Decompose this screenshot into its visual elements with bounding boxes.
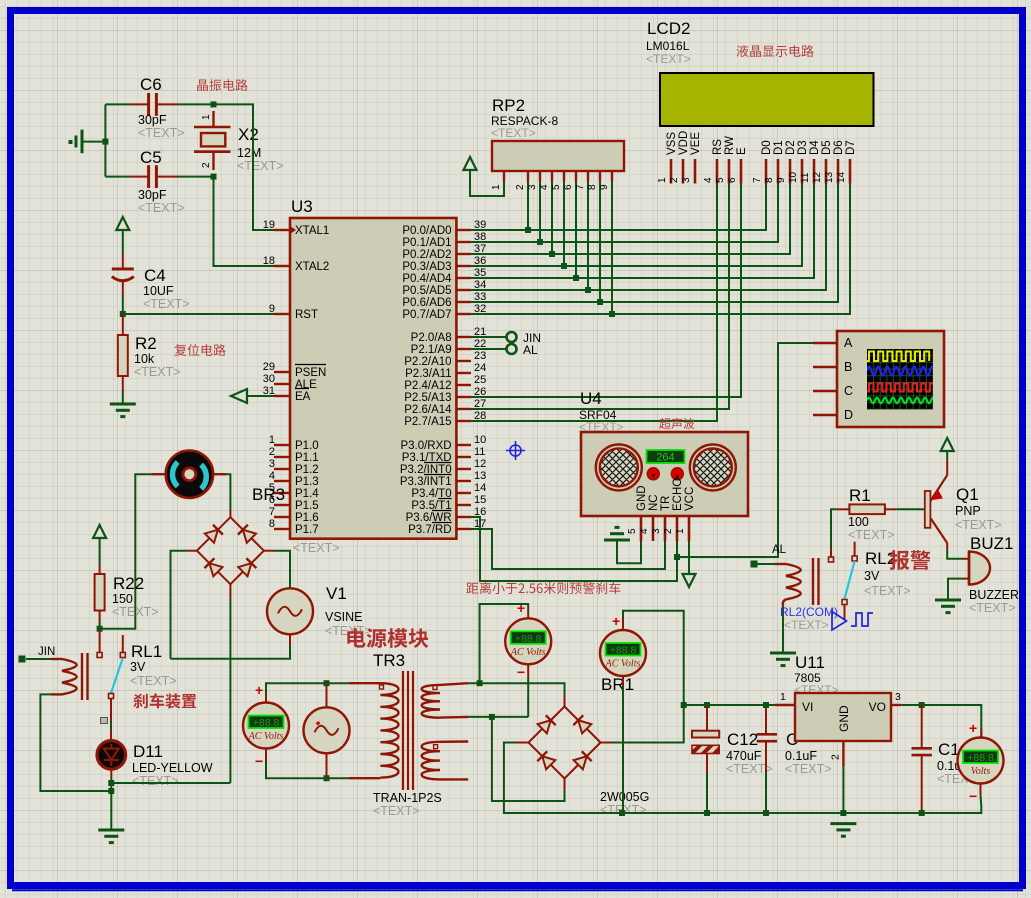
- svg-text:<TEXT>: <TEXT>: [134, 365, 181, 379]
- RP2 pin 3: [527, 171, 540, 190]
- power arrow (RP2): [464, 157, 477, 170]
- resistor R22: [95, 564, 159, 622]
- wire RL1 coil return: [40, 694, 111, 791]
- svg-text:2: 2: [663, 528, 674, 534]
- terminal AL (RL2 coil): [751, 561, 758, 568]
- node: RP2 pin 5 junction: [561, 263, 567, 269]
- svg-text:12: 12: [812, 171, 823, 183]
- svg-text:Q1: Q1: [956, 485, 979, 504]
- LCD2 pin 8 D1: [764, 140, 785, 183]
- svg-text:P0.7/AD7: P0.7/AD7: [402, 309, 451, 321]
- svg-text:VO: VO: [869, 700, 886, 714]
- svg-text:470uF: 470uF: [726, 749, 762, 763]
- wire LCD D6 to U3 P0.6: [471, 184, 838, 303]
- svg-text:3: 3: [527, 184, 538, 190]
- svg-text:ECHO: ECHO: [672, 478, 684, 511]
- label 刹车装置: [133, 693, 196, 708]
- wire LCD E to U3 P2.5: [471, 184, 741, 398]
- svg-text:BR1: BR1: [601, 675, 634, 694]
- svg-text:C4: C4: [144, 266, 166, 285]
- svg-text:5: 5: [627, 528, 638, 534]
- wire RP2 pin 8 to P0.6 bus row: [599, 181, 601, 302]
- node: gnd junction on left vertical: [102, 139, 108, 145]
- svg-text:VSINE: VSINE: [325, 610, 363, 624]
- svg-text:R1: R1: [849, 486, 871, 505]
- svg-text:P2.3/A11: P2.3/A11: [405, 368, 451, 380]
- svg-text:U4: U4: [580, 389, 602, 408]
- RP2 pin 8: [587, 171, 600, 190]
- LCD2 pin 13 D6: [824, 140, 845, 183]
- svg-text:2W005G: 2W005G: [600, 790, 649, 804]
- wire BR3 right vertex to V1 plus: [263, 550, 274, 552]
- LCD2 pin 5 RW: [715, 136, 736, 184]
- wire LCD D1 to U3 P0.1: [471, 184, 778, 243]
- svg-text:AL: AL: [523, 343, 538, 357]
- wire U3 P2.0 to JIN: [471, 336, 507, 338]
- wire buzzer bottom to ground: [964, 578, 970, 580]
- svg-text:AL: AL: [772, 544, 787, 556]
- buzzer BUZ1: [969, 534, 1019, 615]
- U3 pin 24 P2.3/A11: [405, 362, 486, 380]
- LCD2 pin 14 D7: [836, 140, 857, 183]
- svg-text:P2.0/A8: P2.0/A8: [411, 332, 452, 344]
- svg-text:P2.6/A14: P2.6/A14: [404, 404, 452, 416]
- svg-text:3V: 3V: [864, 569, 880, 583]
- svg-text:<TEXT>: <TEXT>: [491, 126, 536, 140]
- voltmeter secondary AC Volts (meter2): [505, 600, 551, 680]
- capacitor C2 0.1uF: [757, 705, 832, 776]
- node: C13 top junction: [919, 702, 925, 708]
- SRF04 left transducer: [596, 444, 642, 490]
- ground (reset circuit): [110, 404, 136, 417]
- RP2 pin 2: [515, 171, 528, 190]
- svg-text:P0.1/AD1: P0.1/AD1: [402, 237, 451, 249]
- resistor R1: [836, 486, 897, 542]
- svg-text:AC Volts: AC Volts: [605, 659, 641, 670]
- wire meter1 top: [265, 693, 267, 702]
- svg-text:E: E: [736, 147, 748, 155]
- svg-text:XTAL1: XTAL1: [295, 225, 329, 237]
- U3 pin 3 P1.2: [269, 458, 319, 476]
- svg-text:4: 4: [703, 177, 714, 183]
- wire motor left down: [100, 474, 152, 629]
- wire to BR1 bottom vertex: [492, 717, 565, 801]
- svg-text:<TEXT>: <TEXT>: [848, 528, 895, 542]
- node: C6 right junction: [211, 101, 217, 107]
- node: C2 top junction: [763, 702, 769, 708]
- svg-text:1: 1: [201, 114, 212, 120]
- node: C2 rail junction: [763, 810, 769, 816]
- svg-text:2: 2: [515, 184, 526, 190]
- wire AC top rail: [468, 683, 564, 694]
- svg-text:<TEXT>: <TEXT>: [293, 541, 340, 555]
- wire RP2 pin 2 to P0.0 bus row: [527, 181, 529, 230]
- node: RP2 pin 3 junction: [537, 239, 543, 245]
- svg-text:D4: D4: [809, 140, 821, 155]
- wire LCD D7 to U3 P0.7: [471, 184, 850, 315]
- node: RST junction: [120, 311, 126, 317]
- svg-text:+: +: [517, 600, 525, 616]
- wire LCD D4 to U3 P0.4: [471, 184, 814, 279]
- ground (D11): [98, 830, 124, 843]
- svg-text:D6: D6: [833, 140, 845, 155]
- node: D11/coil rail junction: [108, 788, 114, 794]
- wire SRF04 VCC to power: [688, 541, 690, 574]
- svg-text:7: 7: [752, 177, 763, 183]
- U3 pin 27 P2.6/A14: [404, 398, 486, 416]
- U3 pin 10 P3.0/RXD: [400, 434, 486, 452]
- LCD2 pin 9 D2: [776, 140, 797, 183]
- svg-text:P1.7: P1.7: [295, 524, 319, 536]
- wire V1 bottom to rail: [289, 634, 291, 645]
- svg-text:<TEXT>: <TEXT>: [784, 618, 829, 632]
- svg-text:C6: C6: [140, 75, 162, 94]
- svg-text:2: 2: [201, 162, 212, 168]
- RP2 pin 5: [551, 171, 564, 190]
- svg-text:1: 1: [657, 177, 668, 183]
- LCD2 pin 7 D0: [752, 140, 773, 183]
- voltmeter DC Volts (meter4): [958, 714, 1004, 806]
- svg-text:D1: D1: [773, 140, 785, 155]
- capacitor C4 (polarized): [112, 254, 190, 311]
- U3 pin 15 P3.5/T1: [411, 494, 486, 512]
- svg-text:GND: GND: [837, 705, 851, 732]
- svg-text:U11: U11: [795, 653, 825, 672]
- svg-text:RW: RW: [724, 136, 736, 155]
- label 报警: [890, 550, 931, 570]
- svg-text:P3.3/INT1: P3.3/INT1: [400, 476, 452, 488]
- svg-text:2: 2: [830, 754, 842, 760]
- label 距离小于2.56米则预警刹车: [467, 582, 621, 594]
- svg-text:AC Volts: AC Volts: [510, 647, 546, 658]
- capacitor C5: [105, 148, 213, 215]
- U3 pin 31 EA: [263, 385, 311, 403]
- wire motor right to BR3: [226, 474, 230, 510]
- svg-text:+88.8: +88.8: [610, 645, 637, 657]
- resistor R2: [118, 314, 181, 392]
- svg-text:10: 10: [474, 434, 486, 446]
- svg-text:▼: ▼: [650, 473, 657, 480]
- svg-text:TR3: TR3: [373, 651, 405, 670]
- svg-text:3: 3: [269, 458, 275, 470]
- svg-text:<TEXT>: <TEXT>: [955, 518, 1002, 532]
- svg-text:D3: D3: [797, 140, 809, 155]
- U3 microcontroller body: [290, 197, 456, 555]
- label 电源模块: [347, 628, 428, 648]
- svg-text:9: 9: [269, 303, 275, 315]
- oscilloscope channel D pin: [813, 408, 853, 422]
- wire RL2 coil to ground: [782, 606, 784, 653]
- bridge rectifier BR1: [529, 675, 650, 817]
- ground (RL2 coil): [770, 653, 796, 666]
- wire LCD D2 to U3 P0.2: [471, 184, 790, 255]
- node: RP2 pin 6 junction: [573, 275, 579, 281]
- LCD2 pin 4 RS: [703, 139, 724, 184]
- label 超声波: [659, 418, 694, 429]
- ground (rotated, crystal circuit): [81, 130, 84, 154]
- wire primary bottom: [327, 777, 349, 779]
- wire U3 P2.1 to AL: [471, 348, 507, 350]
- svg-text:R22: R22: [113, 574, 144, 593]
- svg-text:+: +: [255, 682, 263, 698]
- label 晶振电路: [197, 79, 247, 91]
- svg-text:<TEXT>: <TEXT>: [646, 52, 691, 66]
- svg-text:B: B: [844, 360, 852, 374]
- wire BR1 left vertex to DC minus rail: [516, 742, 529, 744]
- U3 pin 26 P2.5/A13: [404, 386, 486, 404]
- RP2 pin 6: [563, 171, 576, 190]
- svg-text:11: 11: [474, 446, 485, 458]
- wire RP2 pin 4 to P0.2 bus row: [551, 181, 553, 254]
- wire BR3 bottom vertex down to DC rail: [229, 584, 231, 599]
- relay actuator icon: [101, 718, 108, 724]
- svg-text:RS: RS: [712, 139, 724, 155]
- svg-text:11: 11: [800, 172, 811, 183]
- wire RP2 pin 6 to P0.4 bus row: [575, 181, 577, 278]
- ground (buzzer): [935, 600, 961, 613]
- svg-text:D7: D7: [845, 140, 857, 155]
- capacitor C13 0.1uF: [912, 705, 970, 813]
- svg-text:9: 9: [599, 184, 610, 190]
- svg-text:−: −: [517, 664, 525, 680]
- svg-text:+88.8: +88.8: [515, 633, 542, 645]
- svg-text:30pF: 30pF: [138, 188, 167, 202]
- oscilloscope channel C pin: [813, 384, 853, 398]
- svg-text:150: 150: [112, 592, 133, 606]
- svg-text:100: 100: [848, 515, 869, 529]
- svg-text:2: 2: [269, 446, 275, 458]
- svg-text:P3.7/RD: P3.7/RD: [408, 524, 451, 536]
- node: ECHO junction: [674, 554, 680, 560]
- svg-text:4: 4: [639, 528, 650, 534]
- svg-text:V1: V1: [326, 584, 347, 603]
- svg-text:14: 14: [474, 482, 486, 494]
- wire RL1 common to D11: [110, 698, 112, 721]
- wire LCD D5 to U3 P0.5: [471, 184, 826, 291]
- wire RP2 pin 9 to P0.7 bus row: [611, 181, 613, 314]
- LCD2 pin 11 D4: [800, 140, 821, 184]
- node: C13 rail junction: [919, 810, 925, 816]
- label 复位电路: [174, 344, 225, 356]
- svg-text:VSS: VSS: [666, 132, 678, 155]
- svg-text:8: 8: [764, 177, 775, 183]
- SRF04 pin 3 TR: [651, 496, 672, 541]
- svg-text:RST: RST: [295, 309, 318, 321]
- U11 pin 1 VI: [775, 704, 795, 706]
- svg-text:5: 5: [715, 177, 726, 183]
- svg-text:19: 19: [263, 219, 275, 231]
- origin marker: [506, 441, 525, 460]
- U3 pin 17 P3.7/RD: [408, 518, 486, 536]
- svg-text:30: 30: [263, 373, 275, 385]
- U11 7805 regulator: [794, 653, 891, 741]
- U3 pin 11 P3.1/TXD: [402, 446, 486, 464]
- svg-text:RP2: RP2: [492, 96, 525, 115]
- net AL circle: [507, 344, 517, 354]
- wire BR3 left vertex to V1 minus rail: [187, 550, 197, 552]
- svg-text:1: 1: [780, 691, 786, 703]
- LED D11: [97, 741, 213, 788]
- U3 pin 2 P1.1: [269, 446, 319, 464]
- svg-text:15: 15: [474, 494, 486, 506]
- wire DC plus rail to U11 VI: [684, 704, 775, 706]
- oscilloscope channel A pin: [813, 336, 853, 350]
- svg-text:+88.8: +88.8: [253, 717, 280, 729]
- wire RP2 pin 3 to P0.1 bus row: [539, 181, 541, 242]
- U3 XTAL1 pin arrow: [290, 226, 296, 234]
- svg-text:P2.5/A13: P2.5/A13: [404, 392, 451, 404]
- svg-text:264: 264: [656, 452, 674, 464]
- U3 pin 14 P3.4/T0: [411, 482, 486, 500]
- svg-text:<TEXT>: <TEXT>: [864, 584, 911, 598]
- svg-text:LCD2: LCD2: [647, 19, 690, 38]
- source V1 VSINE: [267, 584, 372, 638]
- svg-text:RL2: RL2: [865, 549, 896, 568]
- svg-text:8: 8: [269, 518, 275, 530]
- node: source bottom junction: [324, 775, 330, 781]
- bridge rectifier BR3: [197, 485, 285, 584]
- svg-text:C5: C5: [140, 148, 162, 167]
- svg-text:D5: D5: [821, 140, 833, 155]
- svg-text:D: D: [844, 408, 853, 422]
- svg-text:P0.0/AD0: P0.0/AD0: [402, 225, 451, 237]
- svg-text:<TEXT>: <TEXT>: [143, 297, 190, 311]
- SRF04 range display 264: [647, 450, 685, 464]
- svg-text:R2: R2: [135, 334, 157, 353]
- U11 pin 3 VO: [891, 704, 901, 706]
- svg-text:<TEXT>: <TEXT>: [785, 762, 832, 776]
- svg-text:<TEXT>: <TEXT>: [237, 159, 284, 173]
- node: R22/motor junction: [97, 626, 103, 632]
- svg-text:4: 4: [539, 184, 550, 190]
- svg-text:0.1uF: 0.1uF: [785, 749, 817, 763]
- SRF04 pin 1 VCC: [675, 487, 696, 541]
- svg-text:P1.0: P1.0: [295, 440, 319, 452]
- svg-text:9: 9: [776, 177, 787, 183]
- svg-text:13: 13: [824, 171, 835, 183]
- SRF04 RX indicator: [671, 468, 683, 480]
- svg-text:<TEXT>: <TEXT>: [130, 674, 177, 688]
- svg-text:10UF: 10UF: [143, 284, 174, 298]
- node: U11 GND rail junction: [840, 810, 846, 816]
- svg-text:P1.3: P1.3: [295, 476, 319, 488]
- oscilloscope channel B pin: [813, 360, 852, 374]
- U3 pin 36 P0.3/AD3: [402, 255, 486, 273]
- wire meter1 bottom: [265, 749, 267, 760]
- svg-text:3: 3: [651, 528, 662, 534]
- svg-text:+: +: [612, 613, 620, 629]
- label 液晶显示电路: [737, 45, 814, 57]
- svg-text:P1.4: P1.4: [295, 488, 319, 500]
- svg-text:<TEXT>: <TEXT>: [579, 420, 624, 434]
- SRF04 pin 5 GND: [627, 485, 648, 541]
- svg-text:PSEN: PSEN: [295, 367, 326, 379]
- U3 pin 5 P1.4: [269, 482, 319, 500]
- svg-text:10: 10: [788, 171, 799, 183]
- RP2 pin 9: [599, 171, 612, 190]
- svg-text:P0.2/AD2: P0.2/AD2: [402, 249, 451, 261]
- U3 pin 23 P2.2/A10: [404, 350, 486, 368]
- svg-text:1: 1: [491, 184, 502, 190]
- svg-text:5: 5: [551, 184, 562, 190]
- U3 pin 33 P0.6/AD6: [402, 291, 486, 309]
- RP2 pin 1: [503, 171, 505, 181]
- wire X2 pin1 to XTAL1: [214, 104, 275, 230]
- svg-text:P0.6/AD6: P0.6/AD6: [402, 297, 451, 309]
- svg-text:P1.6: P1.6: [295, 512, 319, 524]
- net JIN circle: [507, 332, 517, 342]
- LCD2 pin 12 D5: [812, 140, 833, 183]
- transformer TR3: [373, 671, 442, 818]
- svg-text:<TEXT>: <TEXT>: [138, 201, 185, 215]
- svg-text:NC: NC: [648, 494, 660, 511]
- U3 pin 8 P1.7: [269, 518, 319, 536]
- wire RP2 pin 5 to P0.3 bus row: [563, 181, 565, 266]
- svg-text:D2: D2: [785, 140, 797, 155]
- power arrow (reset circuit): [116, 217, 129, 230]
- transistor Q1 PNP: [925, 475, 1002, 543]
- wire meter3 plus: [622, 617, 624, 630]
- svg-text:13: 13: [474, 470, 486, 482]
- svg-text:12M: 12M: [237, 146, 261, 160]
- svg-text:<TEXT>: <TEXT>: [138, 126, 185, 140]
- RP2 pin 4: [539, 171, 552, 190]
- node: RP2 pin 2 junction: [525, 227, 531, 233]
- SRF04 pin 2 ECHO: [663, 478, 684, 541]
- node: AC bottom junction: [489, 714, 495, 720]
- U3 pin 28 P2.7/A15: [404, 410, 486, 428]
- U3 pin 34 P0.5/AD5: [402, 279, 486, 297]
- relay RL2: [757, 542, 911, 606]
- svg-text:PNP: PNP: [955, 504, 981, 518]
- node: source top junction: [324, 680, 330, 686]
- svg-text:VDD: VDD: [678, 131, 690, 155]
- U3 pin 19 XTAL1: [263, 219, 330, 237]
- U3 pin 4 P1.3: [269, 470, 319, 488]
- node: meter3 rail junction: [619, 810, 625, 816]
- svg-text:C12: C12: [727, 730, 758, 749]
- svg-text:U3: U3: [291, 197, 313, 216]
- relay RL1: [26, 629, 177, 700]
- svg-text:TR: TR: [660, 496, 672, 511]
- svg-text:Volts: Volts: [971, 766, 991, 777]
- svg-text:P2.7/A15: P2.7/A15: [404, 416, 451, 428]
- U3 pin 6 P1.5: [269, 494, 319, 512]
- power arrow down (SRF04 VCC): [683, 574, 696, 587]
- svg-text:LED-YELLOW: LED-YELLOW: [132, 761, 213, 775]
- U3 pin 7 P1.6: [269, 506, 319, 524]
- wire X2 pin2 to XTAL2: [214, 177, 275, 266]
- svg-text:D0: D0: [761, 140, 773, 155]
- svg-text:JIN: JIN: [38, 646, 55, 658]
- wire SRF04 ECHO down: [471, 517, 677, 581]
- wire LCD D3 to U3 P0.3: [471, 184, 802, 267]
- U3 pin 1 P1.0: [269, 434, 319, 452]
- U3 pin 12 P3.2/INT0: [400, 458, 486, 476]
- U4 SRF04 body: [579, 389, 748, 516]
- svg-text:EA: EA: [295, 391, 311, 403]
- svg-text:3: 3: [681, 177, 692, 183]
- svg-text:TRAN-1P2S: TRAN-1P2S: [373, 791, 442, 805]
- svg-text:P2.1/A9: P2.1/A9: [411, 344, 452, 356]
- svg-text:ALE: ALE: [295, 379, 317, 391]
- svg-text:30pF: 30pF: [138, 113, 167, 127]
- svg-text:10k: 10k: [134, 352, 155, 366]
- svg-text:P0.3/AD3: P0.3/AD3: [402, 261, 451, 273]
- node: RP2 pin 8 junction: [597, 299, 603, 305]
- wire LCD D0 to U3 P0.0: [471, 184, 766, 231]
- svg-text:P2.4/A12: P2.4/A12: [404, 380, 451, 392]
